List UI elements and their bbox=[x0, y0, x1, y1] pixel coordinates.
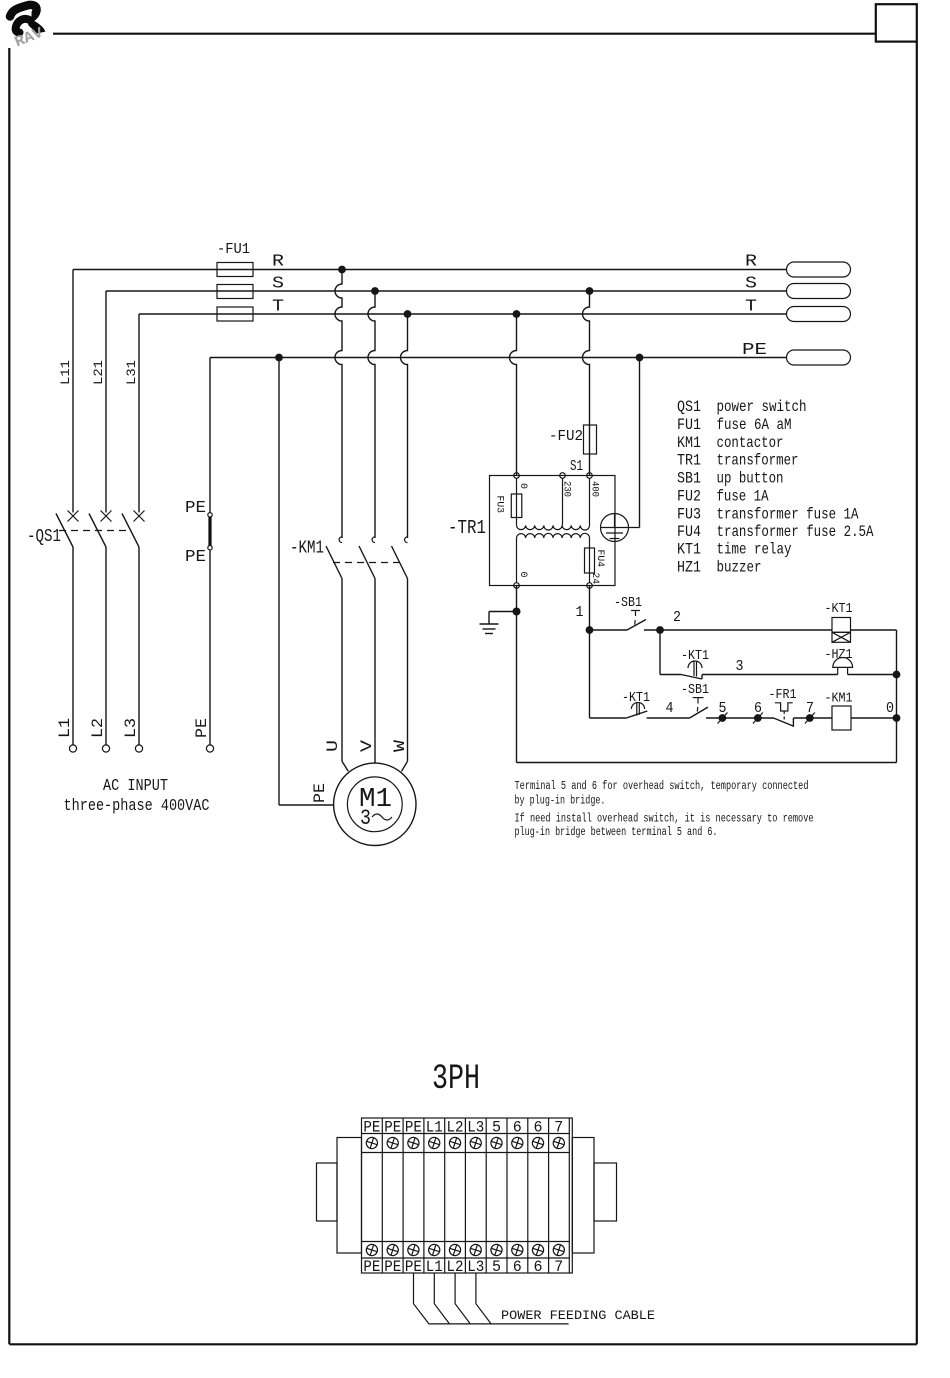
svg-text:6: 6 bbox=[534, 1119, 543, 1137]
svg-text:400: 400 bbox=[589, 481, 600, 497]
svg-text:PE: PE bbox=[363, 1258, 380, 1276]
svg-text:2: 2 bbox=[673, 609, 681, 626]
svg-text:L31: L31 bbox=[124, 360, 139, 385]
svg-text:-KM1: -KM1 bbox=[290, 539, 324, 559]
svg-text:PE: PE bbox=[311, 783, 329, 803]
svg-text:FU4: FU4 bbox=[594, 550, 605, 568]
svg-text:three-phase 400VAC: three-phase 400VAC bbox=[64, 797, 210, 816]
svg-text:T: T bbox=[272, 298, 284, 317]
svg-text:5: 5 bbox=[492, 1119, 501, 1137]
svg-text:KT1: KT1 bbox=[677, 541, 701, 559]
svg-text:KM1: KM1 bbox=[677, 434, 701, 452]
svg-text:3: 3 bbox=[360, 806, 371, 831]
svg-text:5: 5 bbox=[719, 700, 727, 717]
svg-text:FU4: FU4 bbox=[677, 523, 701, 541]
svg-text:6: 6 bbox=[513, 1258, 522, 1276]
svg-text:0: 0 bbox=[517, 572, 528, 578]
svg-text:PE: PE bbox=[185, 548, 206, 567]
svg-text:TR1: TR1 bbox=[677, 452, 701, 470]
svg-text:S1: S1 bbox=[570, 458, 583, 475]
svg-text:T: T bbox=[745, 298, 757, 317]
svg-text:contactor: contactor bbox=[717, 434, 784, 452]
svg-text:-KT1: -KT1 bbox=[622, 690, 650, 706]
svg-text:6: 6 bbox=[534, 1258, 543, 1276]
svg-text:7: 7 bbox=[554, 1119, 563, 1137]
svg-text:PE: PE bbox=[384, 1119, 401, 1137]
svg-text:L11: L11 bbox=[58, 360, 73, 385]
svg-text:L3: L3 bbox=[467, 1119, 484, 1137]
svg-text:0: 0 bbox=[517, 483, 528, 489]
svg-text:FU3: FU3 bbox=[494, 496, 505, 514]
svg-text:-HZ1: -HZ1 bbox=[825, 647, 853, 663]
svg-text:PE: PE bbox=[185, 499, 206, 518]
svg-text:-FU1: -FU1 bbox=[217, 241, 250, 258]
svg-text:power switch: power switch bbox=[717, 398, 807, 416]
svg-text:QS1: QS1 bbox=[677, 398, 701, 416]
svg-text:plug-in bridge between termina: plug-in bridge between terminal 5 and 6. bbox=[515, 826, 718, 839]
svg-text:0: 0 bbox=[886, 700, 894, 717]
svg-text:V: V bbox=[358, 740, 376, 752]
svg-text:PE: PE bbox=[363, 1119, 380, 1137]
svg-text:-KT1: -KT1 bbox=[825, 601, 853, 617]
svg-text:HZ1: HZ1 bbox=[677, 559, 701, 577]
svg-text:fuse 1A: fuse 1A bbox=[717, 488, 769, 506]
svg-text:FU2: FU2 bbox=[677, 488, 701, 506]
svg-text:transformer fuse 1A: transformer fuse 1A bbox=[717, 506, 859, 524]
svg-text:L3: L3 bbox=[122, 718, 140, 738]
svg-text:SB1: SB1 bbox=[677, 470, 701, 488]
svg-text:3PH: 3PH bbox=[432, 1059, 480, 1099]
svg-text:L21: L21 bbox=[91, 360, 106, 385]
svg-text:PE: PE bbox=[405, 1119, 422, 1137]
svg-text:L1: L1 bbox=[426, 1119, 443, 1137]
svg-text:-KM1: -KM1 bbox=[825, 691, 853, 707]
svg-text:S: S bbox=[745, 275, 757, 294]
svg-text:7: 7 bbox=[554, 1258, 563, 1276]
svg-text:-TR1: -TR1 bbox=[448, 517, 486, 539]
svg-text:24: 24 bbox=[589, 573, 600, 585]
svg-text:L2: L2 bbox=[89, 718, 107, 738]
svg-text:If need install overhead switc: If need install overhead switch, it is n… bbox=[515, 812, 814, 825]
svg-text:4: 4 bbox=[666, 700, 674, 717]
svg-text:Terminal 5 and 6 for overhead: Terminal 5 and 6 for overhead switch, te… bbox=[515, 780, 809, 793]
svg-text:5: 5 bbox=[492, 1258, 501, 1276]
svg-text:fuse 6A aM: fuse 6A aM bbox=[717, 416, 792, 434]
svg-text:by plug-in bridge.: by plug-in bridge. bbox=[515, 795, 606, 808]
svg-text:R: R bbox=[272, 253, 284, 272]
svg-text:1: 1 bbox=[576, 604, 584, 621]
svg-text:PE: PE bbox=[384, 1258, 401, 1276]
svg-text:3: 3 bbox=[736, 658, 744, 675]
svg-text:6: 6 bbox=[754, 700, 762, 717]
svg-text:-SB1: -SB1 bbox=[614, 595, 642, 611]
svg-text:FU1: FU1 bbox=[677, 416, 701, 434]
svg-text:POWER FEEDING CABLE: POWER FEEDING CABLE bbox=[501, 1309, 655, 1323]
svg-text:S: S bbox=[272, 275, 284, 294]
svg-text:7: 7 bbox=[806, 700, 814, 717]
svg-text:L2: L2 bbox=[447, 1119, 464, 1137]
svg-text:PE: PE bbox=[193, 718, 211, 738]
svg-text:W: W bbox=[391, 740, 409, 752]
svg-text:PE: PE bbox=[742, 341, 767, 360]
svg-text:time relay: time relay bbox=[717, 541, 792, 559]
svg-text:U: U bbox=[324, 740, 342, 752]
svg-text:6: 6 bbox=[513, 1119, 522, 1137]
svg-text:-KT1: -KT1 bbox=[681, 648, 709, 664]
svg-text:AC INPUT: AC INPUT bbox=[103, 777, 168, 796]
svg-text:transformer fuse 2.5A: transformer fuse 2.5A bbox=[717, 523, 874, 541]
svg-text:L1: L1 bbox=[56, 718, 74, 738]
svg-text:up button: up button bbox=[717, 470, 784, 488]
svg-text:-QS1: -QS1 bbox=[27, 527, 61, 547]
svg-text:transformer: transformer bbox=[717, 452, 799, 470]
svg-text:-SB1: -SB1 bbox=[681, 682, 709, 698]
svg-text:-FR1: -FR1 bbox=[769, 687, 797, 703]
svg-text:R: R bbox=[745, 253, 757, 272]
svg-text:FU3: FU3 bbox=[677, 506, 701, 524]
svg-text:-FU2: -FU2 bbox=[549, 428, 583, 445]
svg-text:buzzer: buzzer bbox=[717, 559, 762, 577]
